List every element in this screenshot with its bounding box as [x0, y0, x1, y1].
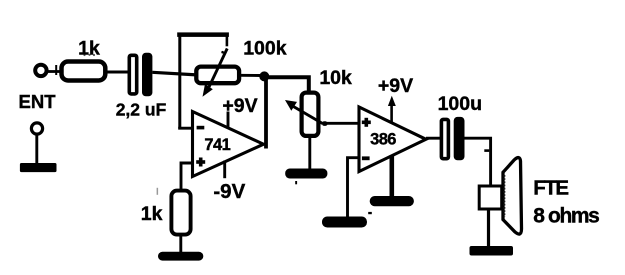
- resistor R2 1k vertical: [171, 191, 190, 235]
- potentiometer P2 wiper: [290, 105, 323, 124]
- wire R2 to ground: [179, 235, 182, 253]
- faint tick left of R2: [157, 188, 159, 195]
- svg-text:+9V: +9V: [378, 75, 413, 97]
- U1 minus sign: [197, 126, 205, 130]
- wire C2 to speaker: [465, 138, 491, 186]
- wire U1 -9V supply: [223, 161, 226, 179]
- wire feedback vertical node A: [178, 34, 181, 129]
- wire feedback top horizontal: [177, 32, 229, 37]
- wire 741 output to node B: [264, 74, 268, 149]
- speaker cone hatch: [503, 175, 505, 217]
- svg-text:FTE: FTE: [533, 176, 568, 199]
- wire U2 +9V supply arrow: [390, 104, 393, 123]
- wire C1 to P1: [152, 72, 196, 75]
- svg-text:386: 386: [370, 131, 396, 149]
- noise tick under P2 ground: [295, 181, 297, 184]
- svg-text:+9V: +9V: [222, 95, 257, 117]
- ground U2 inverting input: [322, 217, 367, 228]
- ground R2: [158, 252, 203, 261]
- resistor R1 1k horizontal: [62, 62, 106, 81]
- svg-text:ENT: ENT: [19, 91, 57, 112]
- lead tick left of R1: [55, 65, 57, 75]
- svg-text:100k: 100k: [243, 38, 287, 60]
- capacitor C2 right plate: [454, 117, 465, 160]
- wire U2 inverting input to ground: [348, 158, 360, 217]
- potentiometer P1 wiper: [209, 49, 227, 88]
- wire speaker to ground: [487, 210, 490, 248]
- noise dot near wiper: [221, 51, 224, 54]
- ground U2 power: [370, 196, 414, 206]
- U2 minus sign: [362, 156, 370, 160]
- svg-text:741: 741: [204, 136, 230, 154]
- node B junction dot: [259, 71, 269, 81]
- svg-text:1k: 1k: [141, 203, 163, 225]
- ground ENT: [20, 163, 57, 172]
- svg-text:8 ohms: 8 ohms: [533, 205, 599, 228]
- svg-text:100u: 100u: [438, 93, 482, 115]
- wire P2 wiper to U2 input: [323, 122, 360, 125]
- wire J1 ground lead: [35, 134, 38, 164]
- wire P2 to ground: [308, 136, 311, 170]
- ground P2: [285, 169, 327, 179]
- input terminal J1 ground: [31, 123, 42, 134]
- tick on speaker wire: [484, 149, 489, 152]
- capacitor C1 left plate: [129, 55, 136, 94]
- wire U2 output to C2: [426, 137, 442, 140]
- wire P1 to node B: [241, 74, 262, 77]
- wire R1 to C1: [107, 71, 129, 74]
- wire 741 non-inverting input to R2: [181, 163, 193, 189]
- wire U2 power ground pin: [389, 155, 394, 197]
- ground speaker: [470, 246, 514, 256]
- U2 plus sign: [362, 121, 371, 125]
- input terminal J1 signal: [35, 65, 46, 76]
- svg-text:-9V: -9V: [213, 180, 245, 203]
- op-amp U2 386: [359, 107, 426, 172]
- wire 741 inverting input: [178, 127, 192, 130]
- potentiometer P2 10k body: [302, 93, 319, 136]
- capacitor C1 right plate: [142, 53, 152, 97]
- speaker FTE box: [479, 186, 502, 209]
- U1 plus sign: [196, 160, 205, 164]
- svg-text:2,2 uF: 2,2 uF: [116, 100, 167, 120]
- speaker FTE horn: [503, 158, 522, 235]
- wire feedback right vertical: [226, 37, 229, 47]
- wire J1 to R1: [46, 70, 60, 73]
- noise dash: [368, 212, 372, 214]
- wire node B to P2 top: [264, 77, 309, 92]
- svg-text:1k: 1k: [78, 38, 100, 60]
- op-amp U1 741: [193, 112, 264, 177]
- capacitor C2 left plate: [441, 119, 448, 158]
- svg-text:10k: 10k: [319, 67, 352, 89]
- potentiometer P1 100k body: [196, 67, 239, 84]
- wire U1 +9V supply: [227, 112, 230, 129]
- noise dots above R1: [83, 54, 85, 56]
